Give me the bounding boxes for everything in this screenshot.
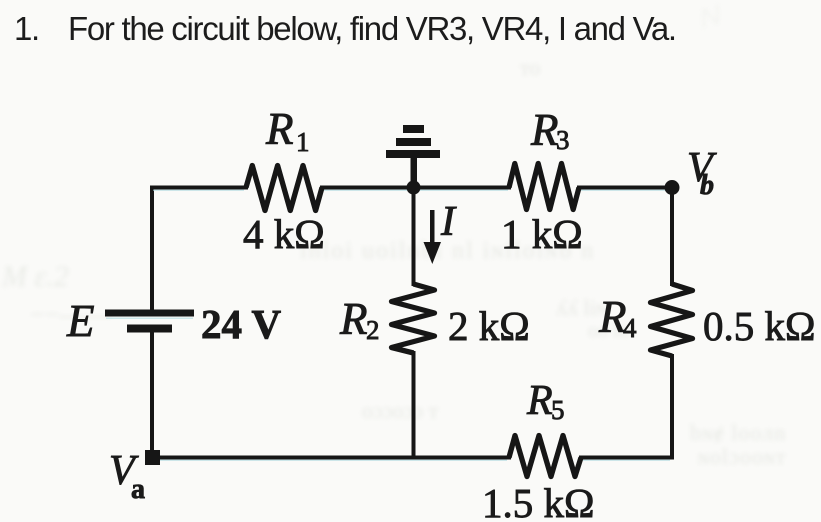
svg-text:E: E	[66, 296, 95, 346]
svg-text:1.5 kΩ: 1.5 kΩ	[482, 480, 594, 522]
svg-text:2 kΩ: 2 kΩ	[448, 303, 530, 349]
svg-text:R: R	[530, 105, 559, 155]
svg-text:24 V: 24 V	[201, 301, 282, 347]
svg-text:a: a	[131, 474, 145, 505]
svg-text:R: R	[265, 104, 294, 154]
svg-text:3: 3	[556, 125, 570, 155]
svg-text:4 kΩ: 4 kΩ	[243, 211, 325, 257]
svg-text:1: 1	[296, 127, 310, 157]
svg-text:I: I	[440, 199, 457, 245]
svg-text:R: R	[526, 378, 553, 424]
svg-text:2: 2	[366, 315, 380, 345]
svg-text:b: b	[700, 170, 714, 201]
svg-text:5: 5	[551, 395, 565, 425]
svg-text:0.5 kΩ: 0.5 kΩ	[703, 303, 815, 349]
svg-text:1 kΩ: 1 kΩ	[501, 211, 583, 257]
svg-text:R: R	[339, 294, 368, 344]
svg-text:4: 4	[623, 313, 637, 343]
